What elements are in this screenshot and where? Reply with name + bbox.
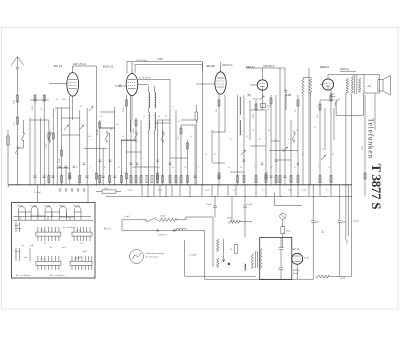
svg-text:40,5V: 40,5V [353, 221, 359, 223]
svg-text:5k: 5k [190, 136, 192, 138]
svg-text:1kΩ: 1kΩ [286, 230, 290, 232]
wire connector h [269, 150, 298, 152]
voltage selector arrow [156, 229, 176, 232]
svg-text:1: 1 [284, 167, 285, 169]
IF transformer 2 lower [240, 120, 241, 135]
resistor [48, 133, 50, 139]
svg-text:0,1: 0,1 [314, 127, 316, 129]
diode arrow [259, 96, 264, 100]
labels under bus [128, 189, 329, 191]
svg-text:50kΩ: 50kΩ [32, 105, 34, 110]
svg-text:0,1: 0,1 [268, 130, 270, 132]
regulator box [230, 245, 237, 254]
svg-text:50: 50 [178, 121, 180, 123]
svg-text:0,5: 0,5 [184, 167, 186, 169]
svg-text:grün: grün [62, 246, 66, 249]
mains transformer [213, 238, 219, 267]
wire grid EF11b left [196, 83, 215, 85]
svg-text:50: 50 [144, 167, 146, 169]
resistor [34, 95, 36, 101]
resistor row above bus [48, 176, 332, 183]
svg-text:50: 50 [322, 149, 324, 151]
svg-text:0,1µF: 0,1µF [124, 216, 130, 218]
socket box interconnect b [14, 217, 92, 221]
svg-text:EF 13: EF 13 [54, 64, 62, 68]
svg-text:0,2: 0,2 [252, 130, 254, 132]
power transformer [251, 248, 262, 268]
svg-text:ECH11: ECH11 [31, 206, 38, 208]
svg-text:EDD11: EDD11 [320, 65, 329, 69]
socket box interconnect a [19, 212, 82, 217]
svg-text:50k: 50k [317, 115, 319, 118]
svg-text:5: 5 [254, 167, 255, 169]
svg-text:0,5µF: 0,5µF [247, 204, 253, 206]
resistor antenna lower [14, 117, 19, 126]
svg-text:8µF: 8µF [316, 222, 320, 224]
resistor [180, 128, 182, 134]
svg-text:1 2 3 4: 1 2 3 4 [76, 230, 81, 232]
speaker [378, 76, 390, 96]
wire step right [275, 193, 302, 206]
svg-text:0,1: 0,1 [196, 121, 198, 123]
wire into box a [37, 185, 39, 203]
mains lead right a [186, 217, 213, 239]
rectifier section box [260, 238, 292, 280]
svg-text:EF - a2 Masse: EF - a2 Masse [63, 227, 75, 229]
tube EZ11 [292, 253, 303, 279]
svg-text:1MΩ: 1MΩ [267, 106, 272, 108]
svg-text:5000: 5000 [62, 99, 66, 101]
svg-text:EBC11: EBC11 [246, 65, 255, 69]
tube EDD11 [322, 75, 364, 91]
resistor [270, 98, 272, 104]
wire screen top [303, 77, 311, 79]
resistor antenna upper [14, 95, 19, 104]
svg-text:EF II: EF II [80, 243, 84, 245]
wire MM rail [340, 70, 356, 72]
resistor 7k horizontal [96, 188, 121, 193]
tube ECH11 [126, 62, 138, 120]
svg-text:5000: 5000 [288, 189, 292, 191]
svg-text:0,5: 0,5 [282, 149, 284, 151]
svg-text:50: 50 [240, 167, 242, 169]
svg-text:100: 100 [88, 136, 91, 138]
wire connector j [250, 109, 266, 111]
svg-text:T 3877 S: T 3877 S [369, 164, 384, 210]
svg-text:20: 20 [110, 129, 112, 131]
resistor 2000 horizontal [227, 218, 252, 224]
resistor 1k vertical [281, 219, 290, 248]
socket pin numbers [40, 230, 84, 261]
svg-text:MM/5mA: MM/5mA [340, 68, 350, 71]
socket strip 3 [36, 256, 61, 270]
svg-text:0,1: 0,1 [230, 139, 232, 141]
wire grid EF13 [49, 83, 67, 85]
rectifier arrow device [222, 239, 230, 265]
switch S5 [162, 131, 164, 133]
variable arrows [64, 107, 326, 161]
svg-text:50: 50 [233, 189, 235, 191]
box chassis line [13, 219, 94, 221]
extra pills above bus [69, 173, 366, 179]
svg-text:0,2: 0,2 [270, 167, 272, 169]
svg-text:30: 30 [158, 116, 160, 118]
svg-text:470Ω: 470Ω [304, 258, 309, 260]
svg-text:7kΩ: 7kΩ [104, 188, 108, 190]
capacitor 8uF a [311, 197, 320, 280]
svg-text:0,5: 0,5 [100, 116, 102, 118]
capacitor 8uF b [338, 197, 347, 277]
resistor [297, 100, 299, 106]
socket strip 1 [36, 227, 61, 241]
svg-text:0,5: 0,5 [205, 154, 207, 156]
switch S4 [135, 131, 137, 133]
svg-text:50k: 50k [216, 109, 218, 112]
capacitor 5nF a [285, 90, 288, 110]
svg-text:gelb: gelb [15, 225, 19, 227]
resistor [218, 100, 220, 106]
svg-text:ECH 11: ECH 11 [103, 65, 114, 69]
bus junction dots [17, 184, 332, 185]
svg-text:0,5µF: 0,5µF [206, 204, 212, 206]
capacitor cluster mid [59, 160, 300, 167]
svg-text:0,1: 0,1 [262, 189, 265, 191]
resistor 300 [195, 105, 197, 185]
wire anode rail ECH [135, 65, 203, 74]
svg-text:5: 5 [318, 167, 319, 169]
IF transformer 1 lower [149, 113, 150, 131]
resistor [99, 122, 101, 128]
svg-text:0,1: 0,1 [158, 167, 160, 169]
resistor [319, 104, 321, 110]
svg-text:(47Ω): (47Ω) [340, 278, 346, 280]
wire grid rail EF11b [138, 80, 170, 111]
mains lead right b [186, 230, 205, 279]
socket strip 4 [70, 256, 92, 270]
svg-text:gelb: gelb [30, 245, 33, 247]
svg-text:14,78,28mA: 14,78,28mA [139, 77, 151, 80]
supply bus wire [106, 196, 352, 198]
svg-text:EF - an Masse: EF - an Masse [16, 275, 31, 277]
svg-text:50k: 50k [116, 124, 119, 126]
svg-text:20,50,5mA: 20,50,5mA [136, 59, 147, 62]
switch S6 [293, 131, 295, 133]
svg-text:135V: 135V [157, 57, 163, 61]
svg-text:1 2 3 4 5: 1 2 3 4 5 [40, 230, 46, 232]
svg-text:0,1: 0,1 [122, 136, 124, 138]
svg-text:EF11b: EF11b [44, 206, 51, 208]
svg-text:50: 50 [246, 136, 248, 138]
svg-text:ORF/20mA: ORF/20mA [263, 65, 275, 68]
value labels rotated [32, 105, 364, 163]
svg-text:0,5M: 0,5M [59, 158, 61, 163]
svg-text:EBC11: EBC11 [59, 206, 66, 208]
bus junction stubs [142, 185, 348, 197]
svg-text:EF a an Masse: EF a an Masse [50, 275, 65, 277]
svg-text:≡0,05µF: ≡0,05µF [189, 253, 198, 256]
svg-text:0,1: 0,1 [165, 116, 167, 118]
svg-text:braun: braun [15, 250, 20, 253]
svg-text:gelb: gelb [83, 251, 86, 253]
switch antenna line [16, 145, 18, 147]
svg-text:Skalenbeleuchtung: Skalenbeleuchtung [146, 252, 165, 255]
resistor 1M [261, 104, 272, 108]
wire grid ECH11 left [115, 85, 127, 86]
wire output return [336, 93, 363, 115]
wire psu drop [231, 197, 233, 222]
svg-text:≡0,1µF: ≡0,1µF [34, 191, 42, 194]
wire switch link [17, 120, 23, 148]
tube EF11b [203, 62, 227, 95]
svg-text:0,1: 0,1 [294, 167, 296, 169]
wire plate link EF13 [73, 66, 97, 71]
svg-text:+ 3W/12V: + 3W/12V [291, 270, 301, 272]
wire 135V rail [127, 62, 203, 74]
socket detail box [12, 203, 96, 279]
resistor [187, 143, 189, 149]
switch S1 [22, 131, 24, 133]
fuse coil 220 [158, 216, 176, 222]
wire grid EBC11 left [250, 84, 257, 86]
svg-text:0,1: 0,1 [328, 167, 330, 169]
svg-text:62mA: 62mA [96, 129, 99, 135]
smoothing cap bottom [279, 268, 283, 280]
svg-text:60: 60 [302, 154, 304, 156]
ground bus wire [8, 184, 352, 186]
svg-text:700Ω 50∼: 700Ω 50∼ [158, 235, 168, 237]
svg-text:14W 0,57mA: 14W 0,57mA [73, 63, 87, 66]
resistor [43, 95, 45, 101]
svg-text:6,3: 6,3 [214, 154, 216, 156]
svg-text:5k: 5k [274, 139, 276, 141]
svg-text:für Germania: für Germania [146, 256, 159, 259]
resistor screen a [302, 78, 304, 185]
capacitor 5nF b [284, 90, 291, 96]
wire connector l [320, 99, 334, 101]
svg-text:220Ω: 220Ω [160, 216, 165, 218]
svg-text:0,1: 0,1 [104, 167, 106, 169]
svg-text:EZ 11: EZ 11 [293, 248, 300, 251]
svg-text:rot gelb: rot gelb [75, 256, 81, 259]
wire right outer [351, 94, 353, 276]
svg-text:0,3M: 0,3M [46, 143, 48, 148]
resistor grid EDD [346, 78, 348, 93]
output transformer [351, 75, 360, 95]
wire verticals [8, 63, 375, 197]
tube EF13 [67, 71, 79, 121]
ladder connector wires [30, 100, 291, 172]
svg-text:EF11b: EF11b [207, 64, 216, 68]
svg-text:1 2 3 4 5: 1 2 3 4 5 [40, 259, 46, 261]
wire grid EDD11 left [320, 84, 323, 86]
svg-text:EIV 2.1: EIV 2.1 [104, 229, 112, 231]
psu bottom line 2 [260, 279, 292, 281]
capacitor 0.5uF a [206, 197, 217, 218]
svg-text:blau: blau [24, 257, 28, 259]
scattered value labels [56, 99, 334, 169]
svg-text:2: 2 [288, 139, 289, 141]
resistor [255, 104, 257, 110]
svg-text:0,1: 0,1 [326, 189, 329, 191]
wire connector f [158, 119, 171, 121]
IF transformer 1 lower b [155, 113, 156, 131]
wire connector d [100, 127, 115, 129]
wire EBC rail [246, 68, 285, 93]
smoothing cap top [279, 238, 283, 268]
ground symbols below bus [59, 189, 86, 191]
wire grid link ECH [138, 84, 149, 86]
svg-text:38mA: 38mA [330, 95, 336, 98]
svg-text:EDD11: EDD11 [74, 206, 81, 208]
bus2 junction dots [148, 196, 349, 197]
svg-text:0,3: 0,3 [296, 130, 298, 132]
socket box pins left [16, 222, 30, 261]
wire connector k [212, 131, 225, 133]
capacitor row above bus [33, 176, 286, 178]
IF transformer 1 upper b [155, 92, 156, 108]
switch S2 [49, 131, 51, 133]
switch S3 [106, 131, 108, 133]
field coil box [364, 75, 379, 94]
wire coil legs [149, 86, 155, 185]
tube socket loops [18, 206, 81, 221]
resistor [330, 95, 332, 101]
mains wire lower [122, 220, 186, 231]
svg-text:50: 50 [230, 249, 232, 251]
bump coil psu [244, 264, 246, 270]
svg-text:0,2: 0,2 [132, 167, 134, 169]
wire connector e [121, 139, 136, 141]
wire x66 [65, 168, 67, 185]
mains wire upper [122, 219, 186, 221]
svg-text:1 2 3 4: 1 2 3 4 [74, 259, 79, 261]
svg-text:46mA: 46mA [293, 272, 299, 275]
capacitor 150pF [248, 95, 260, 101]
svg-text:0,1: 0,1 [56, 99, 58, 101]
svg-text:8µF: 8µF [342, 222, 346, 224]
wire into box b [87, 185, 89, 203]
svg-text:AQ: AQ [368, 85, 372, 88]
resistor [61, 150, 63, 156]
svg-text:25: 25 [332, 154, 334, 156]
wire HT rail right [345, 93, 347, 240]
resistor left rail [7, 136, 9, 145]
svg-text:-8000: -8000 [347, 239, 349, 245]
wire connector c [62, 117, 80, 119]
svg-text:3: 3 [198, 167, 199, 169]
svg-text:25: 25 [143, 116, 145, 118]
svg-text:205V,5mA: 205V,5mA [222, 64, 233, 67]
wire connector g [181, 124, 195, 126]
svg-text:50: 50 [76, 167, 78, 169]
IF transformer 1 upper [149, 92, 150, 108]
wire connector b [30, 119, 49, 121]
svg-text:3: 3 [322, 230, 324, 234]
dial lamp [130, 250, 144, 264]
psu bottom line [205, 278, 314, 280]
svg-text:Telefunken: Telefunken [367, 118, 375, 158]
wire psu right drop [347, 197, 349, 237]
svg-text:150pF: 150pF [253, 99, 260, 101]
resistor [125, 100, 127, 106]
resistor screen b [309, 78, 311, 185]
tube EBC11 [257, 68, 267, 110]
svg-text:50: 50 [80, 106, 82, 108]
svg-text:2k: 2k [172, 167, 174, 169]
pilot lamp [280, 213, 286, 219]
mains switch [145, 218, 156, 223]
svg-text:0,1: 0,1 [228, 167, 230, 169]
resistor [52, 133, 54, 139]
capacitor 0.5uF b [243, 197, 253, 238]
resistor 47 horizontal [316, 275, 352, 280]
svg-text:5000: 5000 [158, 189, 162, 191]
wire cathode hook EDD [335, 99, 340, 106]
choke bump [176, 228, 186, 230]
antenna [11, 57, 24, 185]
svg-text:2: 2 [90, 167, 91, 169]
svg-text:5k: 5k [118, 167, 120, 169]
IF transformer 2 upper [240, 97, 241, 115]
wire connector a [84, 148, 107, 150]
wire connector i [271, 140, 280, 142]
wire psu left [185, 240, 256, 276]
socket strip 2 [72, 227, 92, 241]
resistor [135, 120, 137, 126]
